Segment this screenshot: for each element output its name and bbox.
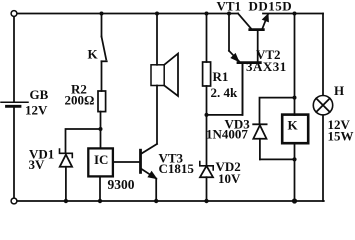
svg-text:K: K: [88, 47, 99, 62]
IC U1: [88, 148, 113, 176]
node VD3 bottom junction: [292, 157, 296, 161]
zener VD1: [60, 149, 73, 199]
svg-text:15W: 15W: [328, 128, 354, 143]
svg-text:12V: 12V: [25, 102, 48, 117]
wire left rail upper: [13, 16, 15, 101]
transistor VT2: [229, 14, 260, 115]
wire top rail left segment: [17, 13, 238, 15]
svg-text:K: K: [288, 118, 299, 133]
svg-text:VT1: VT1: [217, 0, 242, 14]
wire left rail lower: [13, 107, 15, 198]
svg-text:3V: 3V: [29, 157, 46, 172]
wire R2 to node: [100, 112, 102, 149]
svg-text:1N4007: 1N4007: [206, 127, 248, 142]
svg-text:H: H: [334, 83, 344, 98]
svg-text:GB: GB: [30, 87, 49, 102]
switch K: [102, 14, 107, 92]
wire node to VT2 base: [207, 65, 243, 115]
diode VD3: [253, 124, 266, 159]
node top K switch: [100, 12, 104, 16]
svg-text:3AX31: 3AX31: [246, 59, 287, 74]
wire node to VD1: [66, 129, 101, 152]
battery GB: [1, 102, 28, 106]
svg-text:10V: 10V: [218, 171, 241, 186]
node bottom VT3 emitter: [154, 199, 158, 203]
transistor VT3: [141, 144, 158, 200]
terminal top-left: [11, 11, 17, 17]
lamp H: [313, 96, 332, 115]
node VD3 top junction: [293, 96, 297, 100]
node top speaker: [155, 12, 159, 16]
node bottom VD1: [64, 199, 68, 203]
wire node down to VD2: [206, 115, 208, 164]
svg-text:R1: R1: [213, 69, 229, 84]
node bottom VD2: [204, 199, 208, 203]
wire right lamp branch upper: [322, 14, 324, 96]
svg-text:IC: IC: [94, 152, 108, 167]
svg-text:200Ω: 200Ω: [65, 93, 95, 108]
wire relay branch from top rail: [294, 14, 296, 116]
node bottom IC: [98, 199, 102, 203]
node R2 VD1 junction: [99, 127, 103, 131]
node R1 bottom junction: [205, 113, 209, 117]
node bottom relay: [292, 198, 297, 203]
zener VD2: [200, 162, 213, 200]
svg-text:C1815: C1815: [159, 161, 195, 176]
wire relay bottom: [294, 143, 296, 199]
node top relay branch: [293, 12, 297, 16]
node top VT2 emitter: [227, 12, 231, 16]
resistor R1: [203, 14, 211, 115]
wire VD3 bottom to relay column: [260, 158, 295, 160]
node top R1: [205, 12, 209, 16]
svg-text:9300: 9300: [108, 177, 135, 192]
relay K coil: [282, 115, 308, 144]
wire bottom rail: [17, 200, 324, 202]
resistor R2: [98, 91, 106, 112]
wire VD3 top branch: [260, 98, 295, 123]
wire IC output to VT3 base: [113, 161, 139, 163]
speaker: [151, 14, 178, 144]
wire top rail right segment: [263, 13, 323, 15]
svg-text:DD15D: DD15D: [249, 0, 293, 14]
wire IC bottom: [99, 176, 101, 199]
transistor VT1: [238, 14, 268, 30]
svg-text:2. 4k: 2. 4k: [211, 85, 239, 100]
wire right lamp branch lower: [322, 115, 324, 201]
terminal bottom-left: [11, 198, 17, 204]
